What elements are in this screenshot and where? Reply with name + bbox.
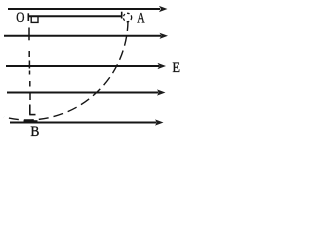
- field line 4: [7, 92, 159, 94]
- rod OA: [28, 15, 122, 17]
- field line 3 (E): [6, 65, 159, 67]
- arrowhead line 2: [160, 33, 169, 39]
- dashed vertical OB: dash 5: [29, 81, 31, 87]
- field line 1: [8, 8, 160, 10]
- corner mark at B horizontal: [29, 114, 35, 116]
- corner mark at B vertical: [29, 105, 31, 115]
- tick at O: [27, 13, 29, 21]
- arrowhead line 3: [158, 63, 167, 69]
- svg-text:A: A: [137, 10, 145, 26]
- dashed vertical OB: dash 3: [28, 61, 30, 69]
- arrowhead line 4: [157, 89, 166, 95]
- square block at O: [31, 16, 38, 22]
- point B blob on line 5: [24, 120, 38, 123]
- tick near A: [121, 12, 123, 19]
- dashed trajectory arc A to B and beyond: [4, 21, 128, 120]
- svg-text:E: E: [173, 59, 181, 75]
- field line 5: [10, 122, 157, 124]
- dashed vertical OB: dash 4: [29, 71, 31, 75]
- dashed vertical OB: dash 2: [28, 51, 30, 57]
- dashed vertical OB: dash 6: [29, 92, 31, 100]
- field line 2: [4, 35, 161, 37]
- svg-text:O: O: [16, 8, 25, 25]
- ball A dashed circle: [123, 13, 131, 21]
- dashed vertical OB: dash 1: [28, 28, 30, 41]
- arrowhead line 5: [155, 119, 164, 125]
- arrowhead line 1: [159, 6, 168, 12]
- svg-text:B: B: [30, 123, 39, 140]
